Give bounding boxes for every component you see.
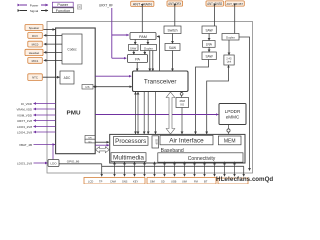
block Processors — [114, 137, 149, 146]
net VRAM_VDD — [17, 107, 56, 111]
svg-text:Switch: Switch — [168, 29, 178, 33]
svg-text:URXT_RF: URXT_RF — [99, 4, 113, 8]
wire clock top — [181, 92, 183, 93]
wire transceiver I/Q pair B — [137, 92, 139, 134]
legend Power box — [52, 2, 73, 7]
wire Switch to SAW2 — [172, 34, 174, 44]
bus transceiver baseband hollow arrow — [166, 92, 175, 134]
wire URXT_RF vertical — [111, 8, 113, 58]
svg-text:BT: BT — [204, 180, 208, 184]
block Multimedia — [111, 153, 146, 162]
svg-text:MIC1: MIC1 — [32, 59, 39, 63]
wire PAM to SAW — [134, 40, 136, 45]
peripheral row middle — [147, 178, 216, 185]
antenna ANT_DRX — [167, 1, 183, 6]
wire Duplex1 to PA — [144, 51, 146, 55]
wire peripheral 1 — [114, 162, 116, 177]
peripheral row left — [84, 178, 145, 185]
wire GPIO bus drop right — [243, 166, 245, 176]
wire transceiver ctrl C — [155, 92, 157, 135]
wire SAWg1 to LNA — [208, 34, 210, 41]
svg-text:Multimedia: Multimedia — [113, 155, 145, 161]
watermark — [216, 176, 273, 183]
legend signal arrow — [20, 8, 48, 13]
wire transceiver ctrl A — [143, 92, 145, 135]
svg-text:IO_VDD: IO_VDD — [21, 102, 33, 106]
svg-text:LDO3_2V8: LDO3_2V8 — [17, 125, 32, 129]
net VSIM_VDD — [17, 113, 56, 117]
svg-text:TP: TP — [99, 180, 103, 184]
svg-text:CAM: CAM — [110, 180, 116, 184]
svg-text:UIM: UIM — [182, 180, 187, 184]
wire PMU power to transceiver — [95, 75, 131, 77]
legend Function box — [52, 8, 73, 13]
svg-text:SNS: SNS — [122, 180, 128, 184]
svg-text:Transceiver: Transceiver — [144, 79, 177, 86]
svg-text:LDO3_1V8: LDO3_1V8 — [17, 161, 32, 165]
wire peripheral 3 — [134, 162, 136, 177]
PMU chip — [56, 28, 96, 154]
wire PMU power to LPDDR — [95, 114, 218, 116]
svg-text:Signal: Signal — [30, 9, 39, 13]
legend power arrow — [20, 3, 48, 8]
headset box — [25, 49, 43, 55]
mic box — [28, 41, 43, 47]
board outline — [47, 22, 253, 174]
svg-text:ANT_MAIN: ANT_MAIN — [133, 2, 153, 6]
wire PMU ctrl to baseband — [95, 141, 109, 143]
svg-text:GPIO_86: GPIO_86 — [67, 160, 80, 164]
peripheral row right — [218, 178, 248, 184]
module 2.4G link — [224, 55, 234, 65]
wire clock to baseband — [181, 95, 183, 97]
svg-text:LCD: LCD — [88, 180, 93, 184]
svg-text:LDO4_2V8: LDO4_2V8 — [17, 130, 32, 134]
svg-text:SAW: SAW — [130, 47, 137, 51]
interface I2C box — [85, 139, 95, 143]
wire PAM to duplexer — [147, 40, 149, 45]
svg-text:LDO: LDO — [50, 162, 57, 166]
module PAM — [130, 33, 156, 40]
wire SAW2 to transceiver — [172, 51, 174, 72]
net VBAT_4B — [19, 143, 55, 160]
wire Duplex1 RX2 to transceiver — [152, 51, 154, 72]
wire peripheral 2 — [124, 162, 126, 177]
svg-text:d: d — [269, 176, 273, 183]
memory LPDDR eMMC — [219, 104, 246, 125]
wire peripheral 11 — [214, 162, 216, 177]
antenna ANT_MAIN — [131, 1, 154, 6]
wire Duplex2 to 2.4G link — [228, 40, 230, 55]
wire transceiver I/Q pair A — [135, 92, 137, 134]
svg-text:ANT_GNSS: ANT_GNSS — [207, 2, 222, 6]
wire ANT_DRX to Switch — [174, 6, 176, 26]
wire peripheral 13 — [234, 162, 236, 177]
net URXT_1V8 — [17, 119, 56, 123]
svg-text:LPDDR: LPDDR — [225, 109, 241, 114]
svg-text:Power: Power — [30, 3, 39, 7]
svg-text:Air Interface: Air Interface — [169, 138, 204, 144]
wire PMU power to baseband — [95, 144, 109, 146]
svg-text:FM: FM — [194, 180, 198, 184]
wire speaker to PMU — [44, 29, 56, 31]
wire GPIO down to peripheral row — [101, 164, 103, 177]
svg-text:NTC: NTC — [32, 76, 38, 80]
svg-text:MIC0: MIC0 — [32, 43, 39, 47]
wire 2.4G link to connectivity — [207, 65, 229, 134]
block MEM — [218, 136, 241, 145]
filter SAW GNSS1 — [202, 26, 216, 34]
filter SAW2 — [165, 44, 180, 51]
net IO_VDD — [21, 102, 56, 106]
wire headset to codec — [44, 51, 62, 53]
svg-text:Processors: Processors — [115, 139, 146, 145]
wire LDO GPIO — [59, 163, 102, 165]
wire peripheral 10 — [204, 162, 206, 177]
svg-text:SIM: SIM — [150, 180, 155, 184]
duplexer Duplex2 — [222, 34, 239, 41]
svg-text:Duplex: Duplex — [226, 35, 235, 39]
wire peripheral 5 — [154, 162, 156, 177]
wire LPDDR to MEM — [228, 125, 230, 137]
svg-text:VBAT_4B: VBAT_4B — [19, 143, 32, 147]
svg-text:ADC: ADC — [64, 76, 71, 80]
legend icon — [77, 5, 81, 9]
adc block — [60, 71, 74, 84]
wire ANT_WIFI/BT to Duplexer — [234, 6, 236, 33]
svg-text:Function: Function — [56, 9, 71, 13]
wire GNSS to baseband — [196, 60, 209, 135]
svg-text:KEY: KEY — [133, 180, 138, 184]
wire mic to codec — [44, 43, 62, 45]
svg-text:PMU: PMU — [67, 110, 81, 116]
svg-text:VRAM_VDD: VRAM_VDD — [17, 107, 33, 111]
svg-text:SAW: SAW — [169, 46, 176, 50]
svg-text:Codec: Codec — [67, 48, 77, 52]
regulator LDO — [48, 160, 59, 167]
wire peripheral 6 — [164, 162, 166, 177]
svg-text:USB: USB — [171, 180, 177, 184]
svg-text:Power: Power — [57, 3, 68, 7]
block DSP vertical — [152, 136, 159, 148]
svg-text:MEM: MEM — [224, 139, 236, 145]
wire peripheral 4 — [144, 162, 146, 177]
svg-text:PAM: PAM — [139, 35, 147, 39]
block Connectivity — [158, 153, 243, 162]
filter SAW GNSS2 — [202, 52, 216, 60]
svg-text:SAW: SAW — [206, 28, 213, 32]
svg-text:PA: PA — [135, 57, 140, 61]
amplifier LNA — [203, 41, 216, 48]
wire ntc to ADC — [43, 76, 60, 78]
switch Switch — [164, 26, 181, 34]
block Air Interface — [160, 135, 213, 144]
oscillator 26M — [176, 98, 189, 108]
wire mic1 to PMU — [44, 59, 62, 61]
duplexer Duplex1 — [141, 45, 157, 51]
amplifier PA — [128, 55, 148, 63]
wire receiver to codec — [44, 34, 62, 36]
wire peripheral 9 — [194, 162, 196, 177]
antenna ANT_WIFI/BT — [225, 1, 244, 6]
wire Duplex2 5G branch down right side — [239, 37, 250, 171]
wire transceiver ctrl B — [147, 92, 149, 135]
peripheral marks — [88, 180, 208, 184]
svg-text:I2S: I2S — [86, 85, 90, 89]
wire peripheral 12 — [224, 162, 226, 177]
wire URXT_RF to PA — [112, 57, 127, 59]
antenna ANT_GNSS — [206, 1, 224, 6]
node memory bus — [227, 129, 230, 132]
wire Duplex1 RX to transceiver — [149, 51, 151, 72]
wire peripheral 8 — [184, 162, 186, 177]
receiver box — [28, 33, 43, 39]
svg-text:ANT_WIFI/BT: ANT_WIFI/BT — [227, 2, 244, 6]
svg-text:Headset: Headset — [29, 51, 40, 55]
net LDO4_2V8 — [17, 130, 56, 134]
wire ANT_MAIN to PAM — [141, 6, 143, 32]
wire peripheral 7 — [174, 162, 176, 177]
svg-text:eMMC: eMMC — [226, 115, 240, 120]
interface SPI box — [85, 136, 95, 140]
net LDO3_2V8 — [17, 125, 56, 129]
ntc box — [28, 74, 43, 81]
wire LNA to SAWg2 — [208, 47, 210, 52]
codec block — [62, 34, 82, 64]
wire GPIO bus under baseband — [102, 165, 244, 167]
net LDO3_1V8 — [17, 161, 47, 165]
wire PA to transceiver — [136, 63, 138, 72]
svg-text:SD: SD — [161, 180, 165, 184]
filter SAW1 — [129, 45, 139, 51]
svg-text:I2C: I2C — [88, 141, 92, 143]
wire I2S to transceiver — [93, 86, 132, 88]
interface I2S box — [82, 85, 93, 90]
node junction PMU edge — [94, 86, 96, 88]
bus PMU baseband hollow arrow — [96, 147, 110, 153]
wire PAM feedback from transceiver — [157, 37, 160, 72]
svg-text:SAW: SAW — [206, 54, 213, 58]
speaker box — [25, 25, 43, 31]
svg-text:Speaker: Speaker — [29, 26, 39, 30]
svg-text:DSP: DSP — [155, 139, 159, 145]
wire ANT_GNSS to SAW — [214, 6, 216, 26]
svg-text:ANT_DRX: ANT_DRX — [168, 2, 182, 6]
svg-text:Connectivity: Connectivity — [188, 156, 216, 162]
svg-text:VSIM_VDD: VSIM_VDD — [17, 113, 33, 117]
wire clock down — [181, 108, 183, 135]
baseband SoC box — [110, 134, 245, 163]
svg-text:URXT_1V8: URXT_1V8 — [17, 119, 32, 123]
node clock tap — [180, 93, 183, 96]
svg-text:Duplex: Duplex — [144, 46, 153, 50]
svg-text:RCV: RCV — [32, 34, 38, 38]
transceiver U_RF — [133, 71, 189, 92]
wire SAW1 to PA — [133, 51, 135, 55]
mic1 box — [28, 58, 43, 64]
svg-text:LNA: LNA — [206, 43, 213, 47]
wire URXT_RF to PAM — [112, 34, 129, 36]
